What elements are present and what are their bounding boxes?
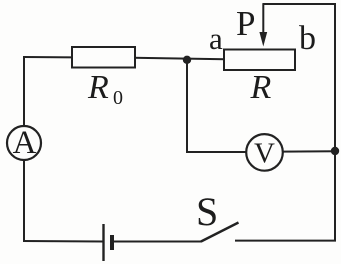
svg-text:A: A [13, 125, 37, 161]
svg-text:b: b [299, 20, 316, 57]
wire left vertical upper [23, 56, 25, 127]
wire right vertical [334, 4, 336, 242]
ammeter A [7, 125, 41, 161]
wire voltmeter left [186, 151, 247, 153]
label S [196, 189, 218, 234]
voltmeter V [246, 134, 283, 171]
label b [299, 20, 316, 57]
svg-text:0: 0 [113, 87, 123, 109]
wire junction-to-rheostat vertical [186, 59, 188, 153]
wire voltmeter right [282, 150, 335, 152]
svg-text:a: a [209, 21, 223, 56]
wire bottom-left horizontal [23, 240, 103, 243]
rheostat wiper arrow P [259, 4, 267, 47]
svg-text:V: V [254, 138, 275, 170]
label P [236, 4, 255, 43]
svg-text:S: S [196, 189, 218, 234]
wire top-middle horizontal [133, 58, 225, 60]
svg-text:R: R [87, 69, 109, 106]
node junction right (dot) [331, 147, 339, 155]
node junction left (dot) [183, 56, 191, 64]
wire top-left horizontal [24, 56, 74, 58]
switch S blade [201, 223, 239, 242]
rheostat R body [224, 50, 295, 71]
label R0 [87, 69, 123, 109]
svg-text:R: R [250, 69, 272, 106]
label R [250, 69, 272, 106]
wire left vertical lower [23, 159, 25, 242]
battery cell [104, 224, 113, 261]
wire battery-to-switch horizontal [113, 241, 202, 243]
wire top-right horizontal [263, 3, 337, 5]
label a [209, 21, 223, 56]
wire bottom-right horizontal [235, 240, 336, 242]
svg-text:P: P [236, 4, 255, 43]
resistor R0 [72, 47, 135, 68]
